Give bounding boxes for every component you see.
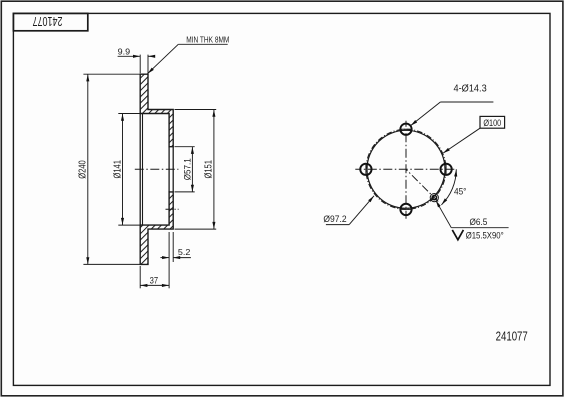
45 degree dimension arc: [441, 169, 456, 205]
dimension 37: [140, 266, 169, 288]
centre hole edge line left: [168, 147, 170, 192]
dimension Ø240: [78, 74, 141, 264]
dimension Ø151: [175, 110, 217, 230]
label Ø100 boxed: [442, 116, 504, 154]
centre hole edge line right: [172, 147, 174, 192]
45 deg diagonal centerline: [406, 169, 440, 203]
bolt hole top tick: [400, 128, 413, 130]
svg-text:241077: 241077: [33, 14, 63, 29]
svg-text:45°: 45°: [454, 186, 467, 196]
svg-text:241077: 241077: [496, 329, 528, 344]
disc inner face edge line: [139, 114, 141, 226]
dimension 9.9: [118, 47, 156, 73]
dimension 5.2: [160, 232, 191, 288]
bolt hole centerline tick in section: [166, 208, 179, 210]
bolt hole bottom tick: [400, 208, 413, 210]
svg-text:37: 37: [150, 276, 159, 286]
svg-text:4-Ø14.3: 4-Ø14.3: [454, 84, 487, 95]
svg-text:Ø240: Ø240: [78, 160, 89, 179]
bolt hole top: [400, 124, 411, 135]
label 4-Ø14.3: [410, 84, 494, 127]
bolt circle Ø100 dash-dot: [366, 129, 446, 209]
bolt hole left: [360, 164, 371, 175]
vertical centerline: [405, 121, 407, 219]
section centerline: [135, 168, 179, 170]
svg-text:5.2: 5.2: [178, 247, 191, 257]
hub solid circle Ø97.2: [367, 130, 445, 208]
section upper half outline (disc + hat flange): [140, 74, 173, 147]
dimension Ø141: [113, 114, 141, 226]
hat bore edge line: [142, 114, 144, 226]
svg-text:Ø6.5: Ø6.5: [470, 216, 488, 227]
svg-text:Ø100: Ø100: [483, 117, 501, 128]
svg-text:Ø141: Ø141: [113, 160, 124, 179]
section lower half outline (disc + hat flange): [140, 192, 173, 265]
svg-text:Ø97.2: Ø97.2: [323, 213, 346, 224]
bolt hole right: [440, 164, 451, 175]
bolt hole bottom: [400, 204, 411, 215]
horizontal centerline: [355, 168, 456, 170]
bolt hole left tick: [365, 163, 367, 176]
svg-text:Ø57.1: Ø57.1: [183, 158, 193, 180]
leader MIN THK 8MM: [147, 34, 230, 74]
svg-text:MIN THK 8MM: MIN THK 8MM: [186, 34, 229, 44]
chamfer ring Ø15.5: [430, 194, 438, 202]
dimension Ø57.1: [175, 147, 195, 192]
svg-text:Ø15.5X90°: Ø15.5X90°: [466, 230, 504, 240]
title box top-left: [13, 13, 87, 30]
label Ø6.5 / Ø15.5X90 with chamfer symbol: [435, 200, 509, 241]
bolt hole right tick: [445, 163, 447, 176]
small hole Ø6.5 at 45deg: [432, 195, 436, 199]
svg-text:9.9: 9.9: [118, 47, 131, 57]
svg-text:Ø151: Ø151: [203, 160, 214, 179]
label Ø97.2: [323, 195, 375, 225]
